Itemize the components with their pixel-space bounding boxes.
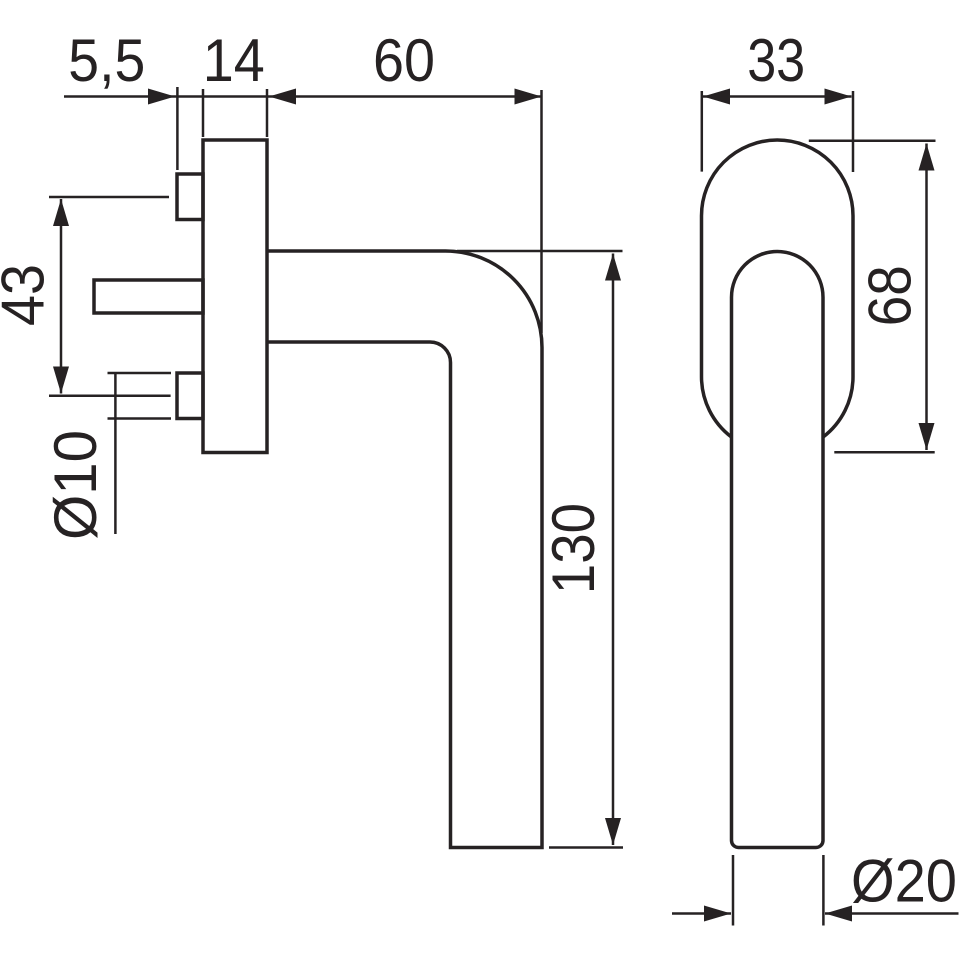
svg-text:68: 68	[857, 265, 924, 326]
svg-text:33: 33	[747, 27, 805, 94]
svg-text:Ø20: Ø20	[851, 848, 957, 915]
svg-text:130: 130	[540, 503, 607, 594]
svg-text:5,5: 5,5	[68, 27, 145, 94]
svg-text:60: 60	[373, 27, 435, 94]
svg-text:Ø10: Ø10	[42, 430, 109, 540]
svg-text:14: 14	[203, 27, 265, 94]
svg-text:43: 43	[0, 264, 57, 326]
